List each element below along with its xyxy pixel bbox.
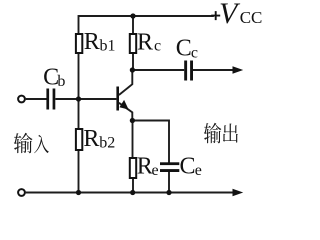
capacitor Cc plates [184,61,187,81]
wire bottom ground rail [26,192,235,194]
resistor Rb1 body [76,34,82,53]
junction node emitter [130,118,135,123]
svg-text:c: c [154,37,161,54]
wire Rb1 branch top [78,15,80,34]
wire top supply rail [79,15,214,17]
wire emitter node right then down to Ce [132,121,169,163]
arrow output bottom [233,189,244,196]
junction node Rb2 at ground rail [76,190,81,195]
junction node base [76,96,81,101]
svg-text:b1: b1 [100,38,116,55]
junction node on top rail [130,13,135,18]
wire Ce bottom to ground rail [168,172,170,193]
svg-text:c: c [191,44,198,61]
svg-text:e: e [152,162,159,179]
wire Re bottom to ground rail [132,179,134,193]
svg-text:CC: CC [240,8,263,27]
wire collector node to Cc [132,69,184,71]
wire emitter node down to Re [132,121,134,159]
wire Cb to transistor base [55,98,116,100]
wire Rc branch top [132,16,134,34]
resistor Rc body [130,34,136,53]
svg-text:C: C [180,154,196,180]
svg-text:C: C [176,36,192,62]
arrow output top [233,66,244,73]
label shuchu (output) [204,123,238,144]
transistor Q1 [116,70,132,121]
svg-text:b: b [57,73,65,90]
wire Rb2 bottom to ground rail [78,150,80,193]
junction node Ce at ground rail [166,190,171,195]
svg-text:R: R [83,126,99,152]
svg-text:R: R [137,154,153,180]
wire Rb1 bottom to base node to Rb2 top [78,53,80,129]
svg-text:b2: b2 [99,135,115,152]
capacitor Cb plates [46,89,49,110]
wire Rc bottom to collector node [132,53,134,70]
svg-text:e: e [195,162,202,179]
svg-text:R: R [137,30,153,56]
label +Vcc supply [211,11,220,20]
resistor Re body [130,158,136,178]
junction node Re at ground rail [130,190,135,195]
wire input terminal to Cb [26,98,47,100]
terminal input bottom [18,189,25,196]
wire Cc to output arrow [193,69,235,71]
svg-text:R: R [84,29,100,55]
label shuru (input) [14,133,49,153]
terminal input top [18,96,25,103]
capacitor Ce plates [160,162,179,165]
resistor Rb2 body [76,129,82,150]
junction node collector [130,67,135,72]
